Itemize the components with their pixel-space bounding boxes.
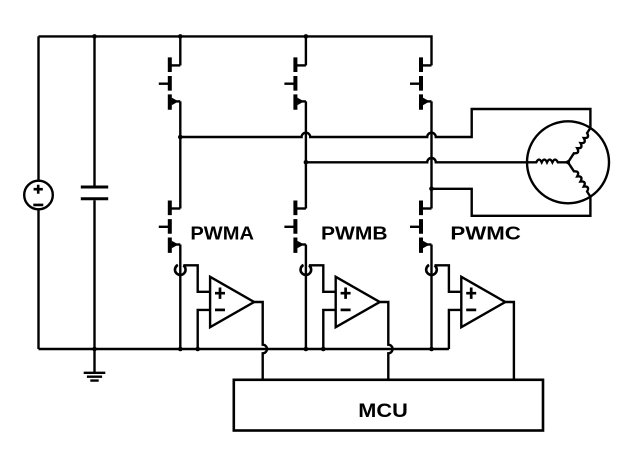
wire U2 output to MCU with hop: [380, 302, 393, 380]
motor M1: [527, 121, 609, 203]
wire U3 - input to bottom rail: [449, 310, 461, 349]
wire bottom rail: [39, 348, 449, 350]
op-amp U2: [336, 277, 380, 327]
ground: [84, 373, 106, 381]
transistor Q5 (low side B): [284, 201, 306, 253]
node bottom rail / Q6 source: [429, 347, 434, 352]
node top rail / C1: [92, 34, 97, 39]
wire source Q5 to bottom rail: [305, 245, 307, 350]
node bottom rail / Q5 source: [304, 347, 309, 352]
wire phase B with crossover hop: [306, 158, 527, 162]
wire half-bridge A midpoint: [179, 101, 181, 208]
svg-text:PWMB: PWMB: [321, 223, 388, 244]
winding phase C (lower right): [568, 162, 590, 196]
wire source Q6 to bottom rail: [430, 245, 432, 350]
current sense loop A: [175, 265, 186, 275]
wire sense C to U3 + input: [435, 265, 462, 292]
current sense loop B: [301, 265, 312, 275]
transistor Q1 (high side A): [159, 57, 181, 109]
op-amp U3: [461, 277, 505, 327]
wire phase A with crossover hops: [180, 109, 590, 137]
svg-text:PWMA: PWMA: [190, 223, 254, 244]
wire source Q4 to bottom rail: [179, 245, 181, 350]
node phase B tap: [304, 160, 309, 165]
wire C1 to top rail: [93, 36, 95, 185]
current sense loop C: [426, 265, 437, 275]
wire C1 to ground node: [93, 200, 95, 373]
wire V1 to top rail: [37, 36, 39, 180]
transistor Q6 (low side C): [410, 201, 432, 253]
wire sense B to U2 + input: [309, 265, 336, 292]
wire top rail: [39, 36, 432, 65]
node bottom rail / Q4 source: [178, 347, 183, 352]
node phase A tap: [178, 135, 183, 140]
transistor Q3 (high side C): [410, 57, 432, 109]
node phase C tap: [429, 187, 434, 192]
wire drain Q1 to top rail: [179, 36, 181, 65]
node bottom rail / ground: [92, 347, 97, 352]
MCU block: [234, 380, 543, 431]
capacitor C1: [81, 187, 108, 199]
wire drain Q2 to top rail: [305, 36, 307, 65]
wire U2 - input to bottom rail: [323, 310, 335, 349]
transistor Q2 (high side B): [284, 57, 306, 109]
wire U3 output to MCU: [505, 302, 514, 380]
node top rail / Q1 drain: [178, 34, 183, 39]
node bottom rail / U1 minus: [195, 347, 200, 352]
wire half-bridge C midpoint: [430, 101, 432, 208]
node bottom rail / U2 minus: [321, 347, 326, 352]
svg-text:MCU: MCU: [358, 401, 408, 422]
winding phase B (left): [527, 160, 568, 163]
wire U1 output to MCU with hop: [254, 302, 267, 380]
winding phase A (upper right): [568, 128, 590, 162]
wire U1 - input to bottom rail: [198, 310, 210, 349]
transistor Q4 (low side A): [159, 201, 181, 253]
wire V1 to bottom rail: [37, 209, 39, 349]
node motor star point: [566, 160, 570, 164]
node top rail / Q2 drain: [304, 34, 309, 39]
svg-text:PWMC: PWMC: [450, 223, 521, 244]
op-amp U1: [210, 277, 254, 327]
wire sense A to U1 + input: [183, 265, 210, 292]
wire half-bridge B midpoint: [305, 101, 307, 208]
wire phase C: [432, 189, 591, 216]
voltage source V1: [24, 181, 53, 210]
